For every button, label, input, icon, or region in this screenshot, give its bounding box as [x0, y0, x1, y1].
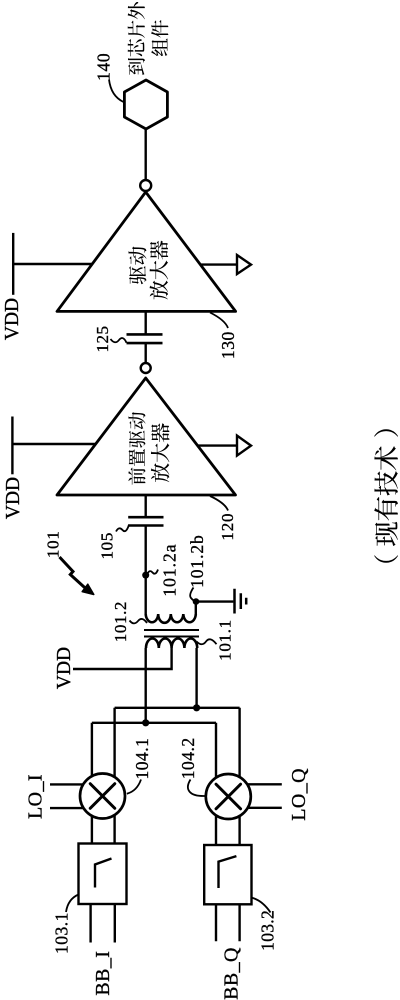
svg-text:103.1: 103.1 [51, 912, 71, 954]
transformer core [144, 630, 199, 637]
mixer 104.2 [206, 774, 251, 819]
svg-text:101.2: 101.2 [111, 601, 130, 642]
wire cap 125 to driver 130 input [144, 311, 146, 334]
svg-text:BB_I: BB_I [92, 951, 114, 996]
mixer 104.1 [80, 774, 125, 819]
VDD T-bar driver [12, 233, 14, 295]
VDD T-bar pre-driver [11, 417, 13, 475]
pad 140 hexagon [124, 80, 167, 129]
svg-text:104.1: 104.1 [132, 738, 152, 780]
wire summing bus 1 [92, 722, 216, 724]
svg-text:101: 101 [43, 530, 62, 558]
node junction bus2/primary lead [193, 704, 200, 711]
svg-text:VDD: VDD [54, 647, 75, 689]
wire cap 105 to pre-driver 120 input [144, 495, 146, 517]
wire LO_Q pair to mixer 104.2 [243, 784, 282, 808]
leader 104.2 [188, 780, 205, 797]
leader 104.1 [127, 780, 141, 794]
svg-text:140: 140 [94, 53, 114, 81]
svg-text:LO_I: LO_I [25, 774, 47, 819]
leader 120 [210, 496, 228, 511]
wire driver VDD drop [13, 263, 92, 265]
wire filter 103.2 to mixer 104.2 [216, 810, 240, 845]
filter 103.2 box [204, 845, 251, 904]
label pre-driver amplifier CJK line1 前置驱动 [128, 468, 145, 485]
wire BB_I input pair [91, 904, 115, 943]
node pre-driver output circle [141, 363, 151, 373]
label driver amplifier CJK line2 放大器 [150, 281, 168, 300]
wire pre-driver output circle to cap 125 [144, 343, 146, 363]
filter 103.1 box [79, 844, 127, 905]
label off-chip CJK line2 组件 [151, 39, 167, 57]
wire mixer 104.1 outputs to summing buses [92, 708, 115, 782]
wire mixer 104.2 outputs to summing buses [216, 708, 240, 782]
wire driver output circle to pad 140 [144, 129, 146, 180]
wire transformer secondary bottom lead to ground [196, 602, 234, 614]
capacitor 125 [127, 334, 163, 343]
svg-text:104.2: 104.2 [178, 737, 198, 779]
pre-driver gain arrow [198, 436, 251, 456]
svg-text:VDD: VDD [2, 298, 23, 340]
node marker 101.2b on secondary-ground lead [193, 598, 200, 605]
leader 130 [210, 313, 228, 329]
svg-text:101.1: 101.1 [216, 619, 235, 661]
wire bus 2 to transformer primary bottom lead [195, 648, 197, 708]
node junction bus1/primary lead [142, 719, 149, 726]
wire VDD center tap of primary 101.1 [73, 648, 172, 669]
leader squiggle 101.1 [197, 639, 217, 644]
leader squiggle 125 [111, 338, 127, 343]
wire bus 1 to transformer primary top lead [144, 648, 146, 723]
svg-text:103.2: 103.2 [257, 910, 277, 951]
svg-text:120: 120 [218, 513, 237, 541]
transformer secondary winding 101.2 [146, 614, 196, 623]
wire LO_I pair to mixer 104.1 [50, 784, 88, 808]
label prior art （现有技术） [374, 555, 398, 562]
svg-text:BB_Q: BB_Q [221, 947, 243, 1000]
node marker 101.2a on secondary lead [142, 572, 149, 579]
svg-text:101.2a: 101.2a [160, 543, 180, 596]
svg-text:125: 125 [93, 326, 112, 353]
label off-chip CJK line1 到芯片外 [128, 58, 145, 75]
ground [235, 589, 247, 614]
svg-text:VDD: VDD [3, 477, 24, 519]
leader squiggle 101.2 [130, 619, 148, 623]
capacitor 105 [128, 517, 163, 525]
leader 103.1 [66, 895, 79, 913]
wire summing bus 2 [115, 707, 240, 709]
svg-text:101.2b: 101.2b [187, 534, 207, 588]
op-amp U1 pre-driver amplifier 120 [57, 378, 236, 495]
leader 140 [109, 80, 124, 103]
wire BB_Q input pair [216, 904, 240, 941]
leader squiggle 101.2a [147, 570, 158, 575]
label driver amplifier CJK line1 驱动 [129, 266, 146, 284]
wire filter 103.1 to mixer 104.1 [92, 810, 115, 844]
leader squiggle 101.2b [190, 588, 195, 602]
op-amp U2 driver amplifier 130 [57, 192, 236, 311]
leader lightning 101 [60, 557, 86, 588]
wire pre-driver VDD drop [12, 443, 95, 445]
label pre-driver amplifier CJK line2 放大器 [151, 463, 169, 482]
wire transformer secondary to coupling cap 105 [144, 526, 146, 615]
transformer primary winding 101.1 [146, 639, 197, 649]
leader 103.2 [251, 898, 271, 913]
svg-text:130: 130 [218, 331, 238, 359]
node driver output circle [140, 180, 151, 191]
leader squiggle 105 [116, 525, 129, 532]
driver gain arrow [201, 255, 252, 274]
svg-text:105: 105 [97, 532, 116, 560]
svg-text:LO_Q: LO_Q [288, 768, 310, 821]
